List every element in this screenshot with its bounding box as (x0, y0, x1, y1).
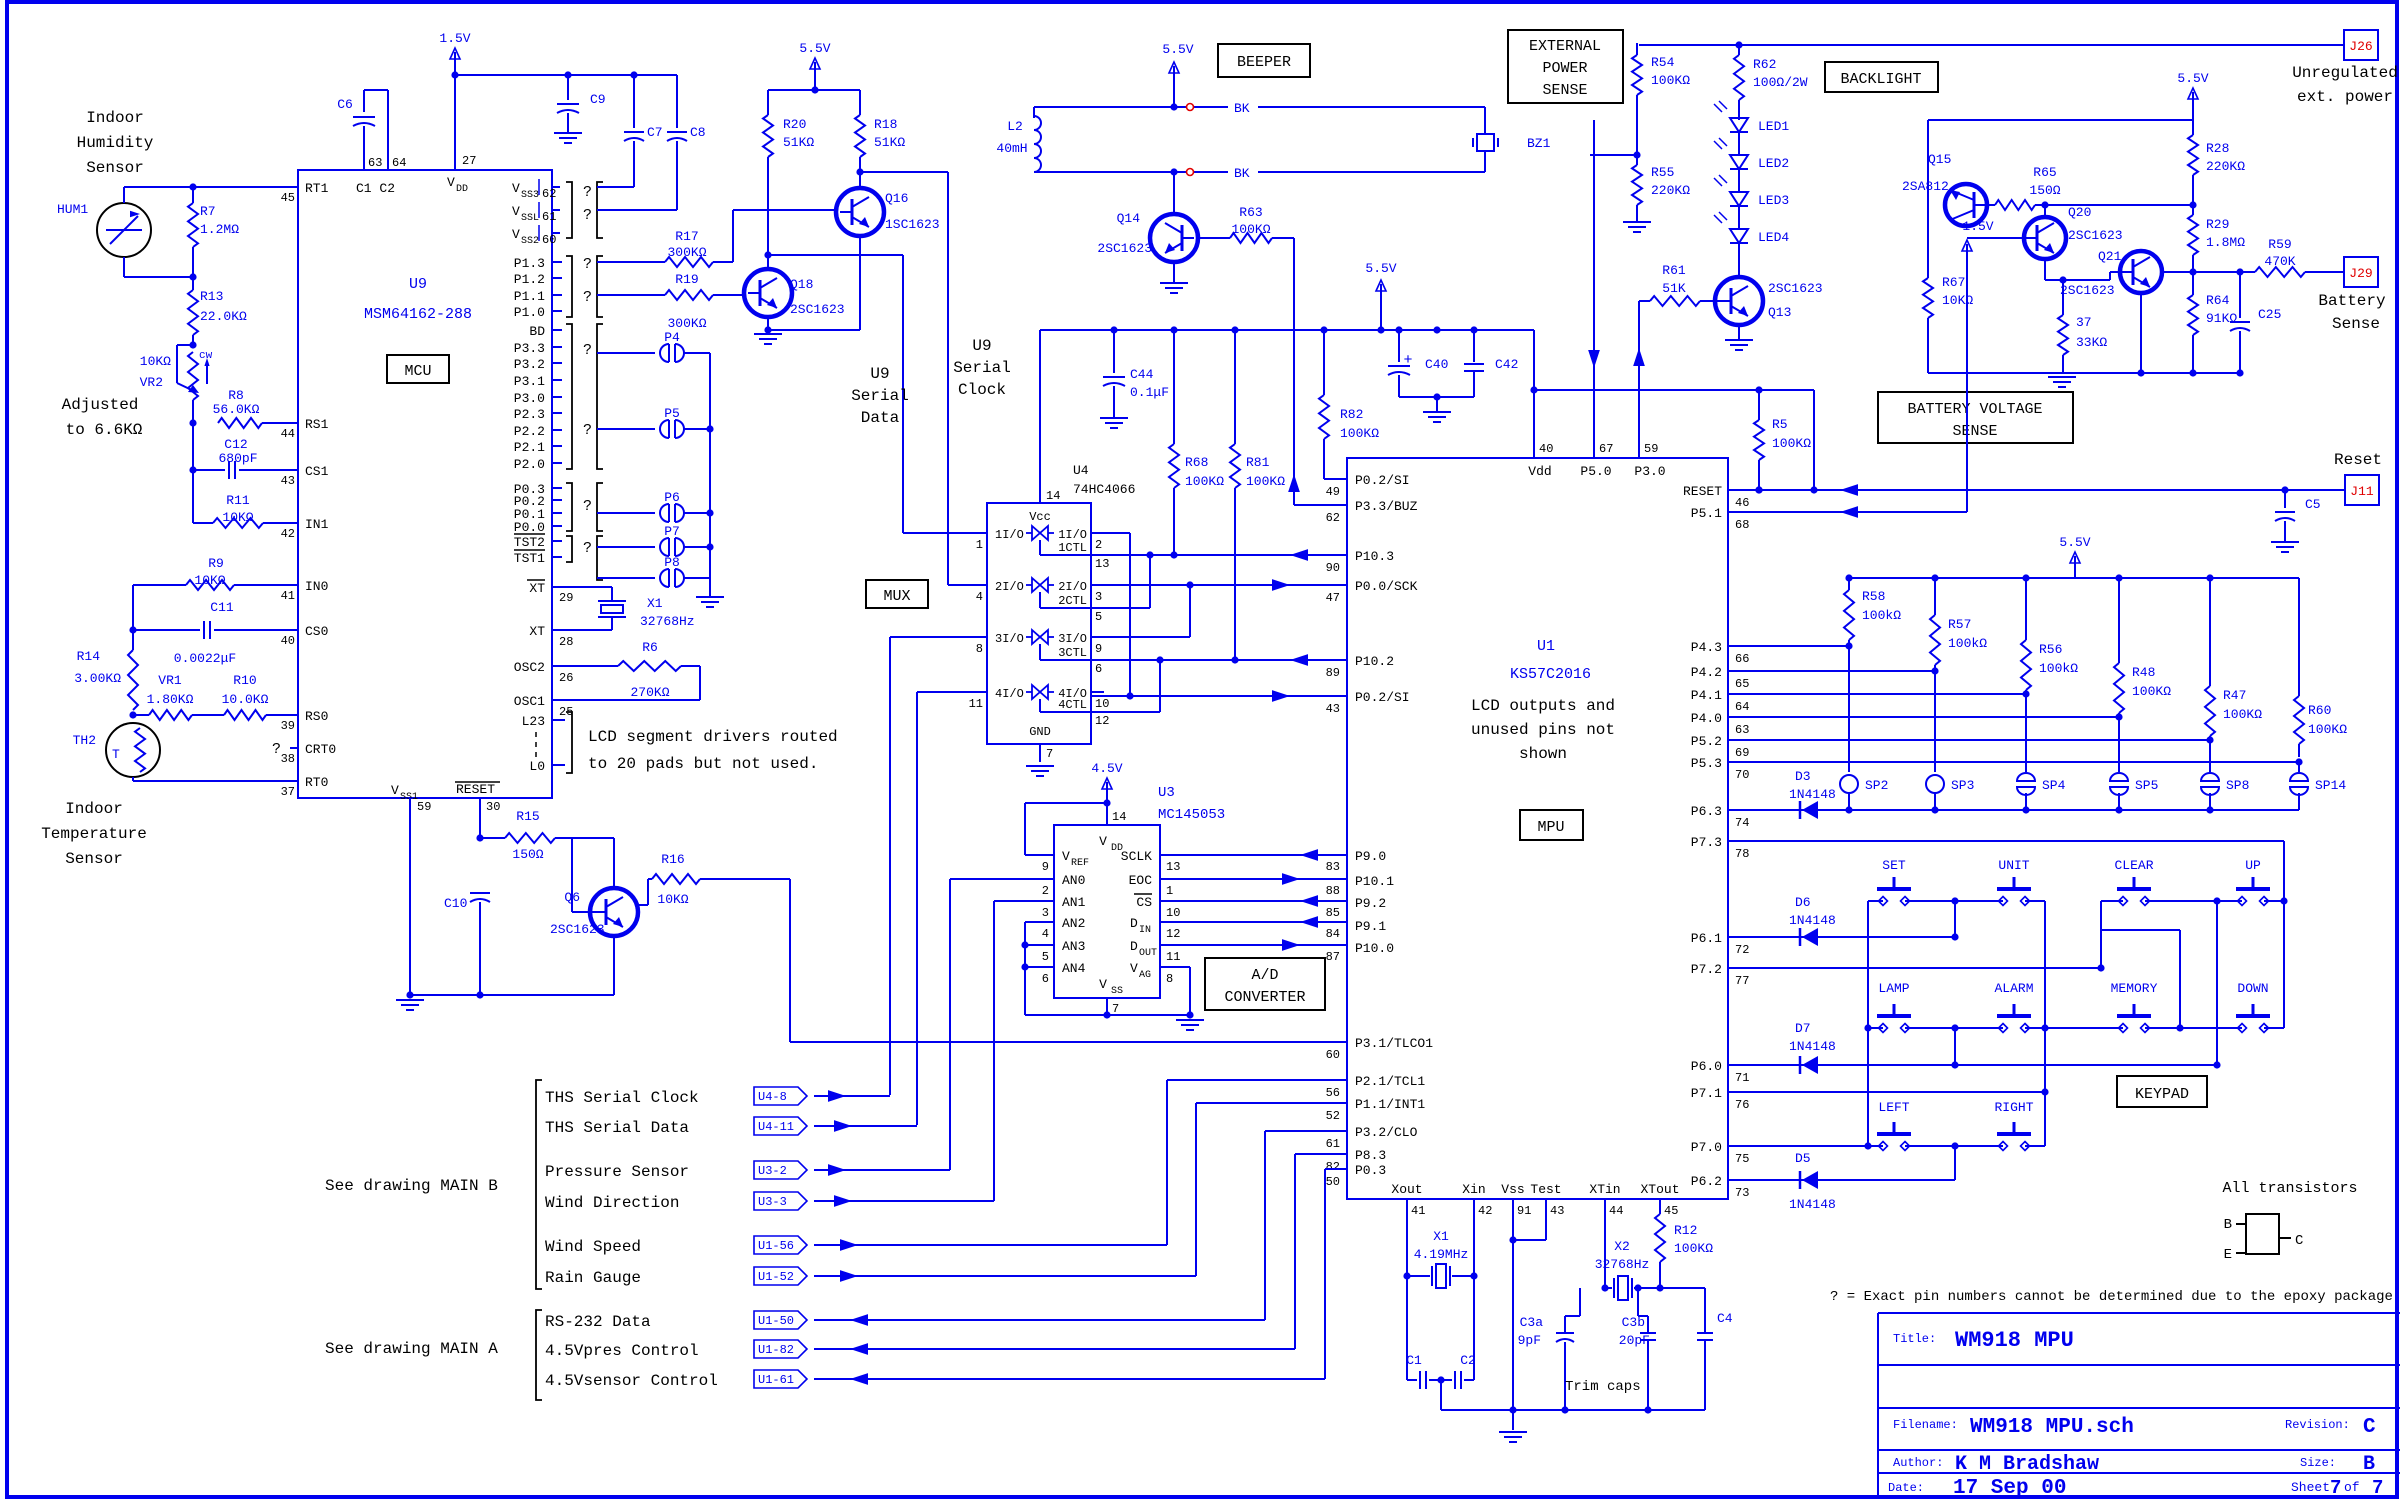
svg-text:TST2: TST2 (514, 535, 545, 550)
svg-text:100KΩ: 100KΩ (1674, 1241, 1713, 1256)
svg-text:MC145053: MC145053 (1158, 807, 1225, 823)
svg-text:Sensor: Sensor (65, 850, 123, 868)
svg-text:SP5: SP5 (2135, 778, 2158, 793)
svg-text:10KΩ: 10KΩ (140, 354, 171, 369)
svg-text:14: 14 (1112, 810, 1126, 824)
svg-text:R6: R6 (642, 640, 658, 655)
svg-text:Sheet: Sheet (2291, 1480, 2330, 1495)
svg-text:RESET: RESET (456, 782, 495, 797)
svg-text:1: 1 (1166, 884, 1173, 898)
svg-text:C1 C2: C1 C2 (356, 181, 395, 196)
svg-text:1CTL: 1CTL (1058, 541, 1087, 555)
svg-text:Data: Data (861, 409, 900, 427)
svg-text:XT: XT (529, 581, 545, 596)
svg-text:75: 75 (1735, 1152, 1749, 1166)
svg-text:63: 63 (1735, 723, 1749, 737)
svg-text:7: 7 (2330, 1477, 2341, 1499)
svg-text:XTin: XTin (1589, 1182, 1620, 1197)
svg-text:C3b: C3b (1622, 1315, 1645, 1330)
svg-text:45: 45 (281, 191, 295, 205)
svg-text:C4: C4 (1717, 1311, 1733, 1326)
svg-text:DD: DD (456, 184, 468, 195)
svg-text:4: 4 (976, 590, 983, 604)
svg-text:Trim caps: Trim caps (1565, 1379, 1641, 1395)
svg-text:9: 9 (1095, 642, 1102, 656)
svg-text:2SC1623: 2SC1623 (790, 302, 845, 317)
svg-text:20pF: 20pF (1619, 1333, 1650, 1348)
svg-text:CRT0: CRT0 (305, 742, 336, 757)
svg-text:62: 62 (1326, 511, 1340, 525)
svg-text:D5: D5 (1795, 1151, 1811, 1166)
svg-text:14: 14 (1046, 489, 1060, 503)
svg-text:5: 5 (1042, 950, 1049, 964)
svg-text:Q20: Q20 (2068, 205, 2091, 220)
svg-text:Rain Gauge: Rain Gauge (545, 1269, 641, 1287)
svg-text:40mH: 40mH (996, 141, 1027, 156)
svg-text:B: B (2224, 1217, 2232, 1233)
svg-text:P2.2: P2.2 (514, 424, 545, 439)
svg-text:88: 88 (1326, 884, 1340, 898)
svg-text:C9: C9 (590, 92, 606, 107)
svg-text:3: 3 (1095, 590, 1102, 604)
svg-text:?: ? (583, 207, 592, 224)
svg-text:Q13: Q13 (1768, 305, 1791, 320)
svg-text:R64: R64 (2206, 293, 2230, 308)
svg-text:ext. power: ext. power (2297, 88, 2393, 106)
svg-text:1N4148: 1N4148 (1789, 787, 1836, 802)
svg-text:of: of (2344, 1480, 2360, 1495)
svg-text:POWER: POWER (1542, 60, 1587, 77)
svg-text:CS0: CS0 (305, 624, 328, 639)
svg-text:U4: U4 (1073, 463, 1089, 478)
svg-text:8: 8 (976, 642, 983, 656)
svg-text:Reset: Reset (2334, 451, 2382, 469)
svg-text:C5: C5 (2305, 497, 2321, 512)
svg-text:U9: U9 (972, 337, 991, 355)
svg-text:AN3: AN3 (1062, 939, 1085, 954)
svg-text:U1-56: U1-56 (758, 1239, 794, 1253)
svg-text:1.8MΩ: 1.8MΩ (2206, 235, 2245, 250)
svg-text:Date:: Date: (1888, 1481, 1924, 1495)
svg-text:P4: P4 (664, 330, 680, 345)
svg-text:CONVERTER: CONVERTER (1224, 989, 1305, 1006)
svg-text:10KΩ: 10KΩ (1942, 293, 1973, 308)
svg-text:V: V (391, 783, 399, 798)
svg-text:100Ω/2W: 100Ω/2W (1753, 75, 1808, 90)
svg-text:40: 40 (281, 634, 295, 648)
svg-text:XT: XT (529, 624, 545, 639)
svg-text:L0: L0 (529, 759, 545, 774)
svg-text:C25: C25 (2258, 307, 2281, 322)
svg-text:1: 1 (976, 538, 983, 552)
svg-text:SP3: SP3 (1951, 778, 1974, 793)
svg-text:D6: D6 (1795, 895, 1811, 910)
svg-text:4: 4 (1042, 927, 1049, 941)
svg-text:P3.0: P3.0 (514, 391, 545, 406)
svg-text:4.5Vpres Control: 4.5Vpres Control (545, 1342, 699, 1360)
svg-text:SS3: SS3 (521, 190, 539, 201)
svg-text:33KΩ: 33KΩ (2076, 335, 2107, 350)
svg-text:R12: R12 (1674, 1223, 1697, 1238)
svg-text:R58: R58 (1862, 589, 1885, 604)
svg-text:83: 83 (1326, 860, 1340, 874)
svg-text:R17: R17 (675, 229, 698, 244)
svg-text:1.80KΩ: 1.80KΩ (147, 692, 194, 707)
svg-text:Vcc: Vcc (1029, 510, 1051, 524)
svg-text:2SC1623: 2SC1623 (2068, 228, 2123, 243)
svg-text:U9: U9 (409, 276, 427, 293)
svg-text:59: 59 (1644, 442, 1658, 456)
svg-text:TH2: TH2 (73, 733, 96, 748)
svg-text:4I/O: 4I/O (995, 687, 1024, 701)
svg-text:P4.3: P4.3 (1691, 640, 1722, 655)
svg-text:V: V (1130, 961, 1138, 976)
svg-text:P4.1: P4.1 (1691, 688, 1722, 703)
svg-text:100kΩ: 100kΩ (1862, 608, 1901, 623)
svg-text:Humidity: Humidity (77, 134, 154, 152)
svg-text:P1.1: P1.1 (514, 289, 545, 304)
svg-text:5.5V: 5.5V (2059, 535, 2090, 550)
svg-text:V: V (1099, 977, 1107, 992)
svg-text:100kΩ: 100kΩ (1948, 636, 1987, 651)
svg-text:10.0KΩ: 10.0KΩ (222, 692, 269, 707)
svg-text:41: 41 (1411, 1204, 1425, 1218)
svg-text:Serial: Serial (851, 387, 909, 405)
svg-text:13: 13 (1166, 860, 1180, 874)
svg-text:R13: R13 (200, 289, 223, 304)
svg-text:R28: R28 (2206, 141, 2229, 156)
svg-text:P3.2: P3.2 (514, 357, 545, 372)
svg-text:X2: X2 (1614, 1239, 1630, 1254)
svg-text:LED4: LED4 (1758, 230, 1789, 245)
svg-text:11: 11 (969, 697, 983, 711)
svg-text:SENSE: SENSE (1952, 423, 1997, 440)
svg-text:29: 29 (559, 591, 573, 605)
svg-text:Test: Test (1530, 1182, 1561, 1197)
svg-text:Vdd: Vdd (1528, 464, 1551, 479)
svg-text:?: ? (583, 540, 592, 557)
svg-text:P2.3: P2.3 (514, 407, 545, 422)
svg-text:R61: R61 (1662, 263, 1686, 278)
svg-text:43: 43 (1550, 1204, 1564, 1218)
svg-text:P1.1/INT1: P1.1/INT1 (1355, 1097, 1425, 1112)
svg-text:R48: R48 (2132, 665, 2155, 680)
svg-text:2: 2 (1042, 884, 1049, 898)
svg-text:74HC4066: 74HC4066 (1073, 482, 1135, 497)
svg-text:2SC1623: 2SC1623 (2060, 283, 2115, 298)
svg-text:100kΩ: 100kΩ (2039, 661, 2078, 676)
svg-text:66: 66 (1735, 652, 1749, 666)
svg-text:D3: D3 (1795, 769, 1811, 784)
svg-text:AN4: AN4 (1062, 961, 1086, 976)
svg-text:R67: R67 (1942, 275, 1965, 290)
svg-text:90: 90 (1326, 561, 1340, 575)
svg-text:P7.2: P7.2 (1691, 962, 1722, 977)
svg-text:42: 42 (281, 527, 295, 541)
svg-text:Temperature: Temperature (41, 825, 147, 843)
svg-text:GND: GND (1029, 725, 1051, 739)
svg-text:P0.2/SI: P0.2/SI (1355, 473, 1410, 488)
svg-text:P5: P5 (664, 406, 680, 421)
svg-text:32768Hz: 32768Hz (640, 614, 695, 629)
svg-text:TST1: TST1 (514, 551, 545, 566)
svg-text:SS2: SS2 (521, 236, 539, 247)
svg-text:BK: BK (1234, 101, 1250, 116)
svg-text:?: ? (583, 289, 592, 306)
svg-text:?: ? (583, 498, 592, 515)
svg-text:OSC1: OSC1 (514, 694, 545, 709)
svg-text:SET: SET (1882, 858, 1906, 873)
svg-text:UNIT: UNIT (1998, 858, 2029, 873)
svg-text:40: 40 (1539, 442, 1553, 456)
svg-text:5: 5 (1095, 610, 1102, 624)
svg-text:Q14: Q14 (1117, 211, 1141, 226)
svg-text:27: 27 (462, 154, 476, 168)
svg-text:Wind Speed: Wind Speed (545, 1238, 641, 1256)
svg-text:2SC1623: 2SC1623 (1768, 281, 1823, 296)
svg-text:IN1: IN1 (305, 517, 329, 532)
svg-text:DOWN: DOWN (2237, 981, 2268, 996)
svg-text:82: 82 (1326, 1160, 1340, 1174)
svg-text:RS-232 Data: RS-232 Data (545, 1313, 651, 1331)
svg-text:1N4148: 1N4148 (1789, 913, 1836, 928)
svg-text:2CTL: 2CTL (1058, 594, 1087, 608)
svg-text:SS: SS (1111, 986, 1123, 997)
svg-text:R60: R60 (2308, 703, 2331, 718)
svg-text:6: 6 (1042, 972, 1049, 986)
svg-text:P1.0: P1.0 (514, 305, 545, 320)
svg-text:U4-11: U4-11 (758, 1120, 794, 1134)
svg-text:BD: BD (529, 324, 545, 339)
svg-text:1N4148: 1N4148 (1789, 1197, 1836, 1212)
svg-text:D: D (1130, 916, 1138, 931)
svg-text:P1.2: P1.2 (514, 272, 545, 287)
svg-text:U3-2: U3-2 (758, 1164, 787, 1178)
svg-text:10KΩ: 10KΩ (222, 510, 253, 525)
svg-text:R10: R10 (233, 673, 256, 688)
svg-text:32768Hz: 32768Hz (1595, 1257, 1650, 1272)
svg-text:1.2MΩ: 1.2MΩ (200, 222, 239, 237)
svg-text:UP: UP (2245, 858, 2261, 873)
svg-text:B: B (2363, 1453, 2375, 1476)
svg-text:R81: R81 (1246, 455, 1270, 470)
svg-text:Unregulated: Unregulated (2292, 64, 2398, 82)
svg-text:IN: IN (1139, 925, 1151, 936)
svg-text:R11: R11 (226, 493, 250, 508)
svg-text:VR1: VR1 (158, 673, 182, 688)
svg-text:76: 76 (1735, 1098, 1749, 1112)
svg-text:R57: R57 (1948, 617, 1971, 632)
svg-text:R15: R15 (516, 809, 539, 824)
svg-text:2SC1623: 2SC1623 (550, 922, 605, 937)
svg-text:BACKLIGHT: BACKLIGHT (1840, 71, 1921, 88)
svg-text:Clock: Clock (958, 381, 1006, 399)
svg-text:Pressure Sensor: Pressure Sensor (545, 1163, 689, 1181)
svg-text:74: 74 (1735, 816, 1749, 830)
svg-text:44: 44 (1609, 1204, 1623, 1218)
svg-text:U1: U1 (1537, 638, 1555, 655)
svg-text:Indoor: Indoor (65, 800, 123, 818)
svg-text:LED1: LED1 (1758, 119, 1789, 134)
svg-text:7: 7 (1112, 1002, 1119, 1016)
svg-text:1.5V: 1.5V (1962, 219, 1993, 234)
svg-text:MUX: MUX (883, 588, 910, 605)
svg-text:P7.3: P7.3 (1691, 835, 1722, 850)
svg-text:LCD segment drivers routed: LCD segment drivers routed (588, 728, 838, 746)
svg-text:64: 64 (1735, 700, 1749, 714)
svg-text:RS1: RS1 (305, 417, 329, 432)
svg-text:87: 87 (1326, 950, 1340, 964)
svg-text:V: V (512, 227, 520, 242)
svg-text:See drawing MAIN B: See drawing MAIN B (325, 1177, 498, 1195)
svg-text:100KΩ: 100KΩ (1231, 222, 1270, 237)
svg-text:Adjusted: Adjusted (62, 396, 139, 414)
svg-text:CS1: CS1 (305, 464, 329, 479)
svg-text:THS Serial Clock: THS Serial Clock (545, 1089, 699, 1107)
svg-text:70: 70 (1735, 768, 1749, 782)
svg-text:R5: R5 (1772, 417, 1788, 432)
svg-text:100KΩ: 100KΩ (1185, 474, 1224, 489)
svg-text:P10.1: P10.1 (1355, 874, 1394, 889)
svg-text:R19: R19 (675, 272, 698, 287)
svg-text:HUM1: HUM1 (57, 202, 88, 217)
svg-text:XTout: XTout (1640, 1182, 1679, 1197)
svg-text:P0.2/SI: P0.2/SI (1355, 690, 1410, 705)
svg-text:P1.3: P1.3 (514, 256, 545, 271)
svg-text:K M Bradshaw: K M Bradshaw (1955, 1453, 2099, 1476)
svg-text:V: V (1099, 834, 1107, 849)
svg-text:LED2: LED2 (1758, 156, 1789, 171)
svg-text:MPU: MPU (1537, 819, 1564, 836)
svg-text:3.00KΩ: 3.00KΩ (74, 671, 121, 686)
svg-text:P3.1/TLCO1: P3.1/TLCO1 (1355, 1036, 1433, 1051)
svg-text:4.5Vsensor Control: 4.5Vsensor Control (545, 1372, 718, 1390)
svg-text:Title:: Title: (1893, 1332, 1936, 1346)
svg-text:U1-52: U1-52 (758, 1270, 794, 1284)
svg-text:C42: C42 (1495, 357, 1518, 372)
svg-text:?: ? (583, 342, 592, 359)
svg-text:cw: cw (199, 350, 213, 362)
svg-text:V: V (512, 204, 520, 219)
svg-text:? = Exact pin numbers cannot b: ? = Exact pin numbers cannot be determin… (1830, 1289, 2393, 1305)
svg-text:KS57C2016: KS57C2016 (1510, 666, 1591, 683)
svg-text:300KΩ: 300KΩ (667, 245, 706, 260)
svg-text:Wind Direction: Wind Direction (545, 1194, 679, 1212)
svg-text:R62: R62 (1753, 57, 1776, 72)
svg-text:P3.3/BUZ: P3.3/BUZ (1355, 499, 1418, 514)
svg-text:1N4148: 1N4148 (1789, 1039, 1836, 1054)
svg-text:77: 77 (1735, 974, 1749, 988)
svg-text:100KΩ: 100KΩ (1340, 426, 1379, 441)
svg-text:1I/O: 1I/O (1058, 528, 1087, 542)
svg-text:X1: X1 (647, 596, 663, 611)
svg-text:42: 42 (1478, 1204, 1492, 1218)
svg-text:R56: R56 (2039, 642, 2062, 657)
svg-text:P5.3: P5.3 (1691, 756, 1722, 771)
svg-text:91KΩ: 91KΩ (2206, 311, 2237, 326)
svg-text:P2.0: P2.0 (514, 457, 545, 472)
svg-text:61: 61 (1326, 1137, 1340, 1151)
svg-text:P7.0: P7.0 (1691, 1140, 1722, 1155)
svg-text:R8: R8 (228, 388, 244, 403)
svg-text:Q21: Q21 (2098, 249, 2122, 264)
svg-text:L23: L23 (522, 714, 545, 729)
svg-text:J26: J26 (2349, 39, 2372, 54)
svg-text:56.0KΩ: 56.0KΩ (213, 402, 260, 417)
svg-text:P9.2: P9.2 (1355, 896, 1386, 911)
svg-text:R7: R7 (200, 204, 216, 219)
svg-text:7: 7 (1046, 747, 1053, 761)
svg-text:43: 43 (1326, 702, 1340, 716)
svg-text:100KΩ: 100KΩ (2132, 684, 2171, 699)
svg-text:69: 69 (1735, 746, 1749, 760)
svg-text:Author:: Author: (1893, 1456, 1943, 1470)
svg-text:65: 65 (1735, 677, 1749, 691)
svg-text:4CTL: 4CTL (1058, 698, 1087, 712)
svg-text:100KΩ: 100KΩ (1772, 436, 1811, 451)
svg-text:11: 11 (1166, 950, 1180, 964)
svg-text:R18: R18 (874, 117, 897, 132)
svg-text:2I/O: 2I/O (1058, 580, 1087, 594)
svg-text:39: 39 (281, 719, 295, 733)
svg-text:78: 78 (1735, 847, 1749, 861)
svg-text:Indoor: Indoor (86, 109, 144, 127)
svg-text:V: V (447, 175, 455, 190)
svg-text:62: 62 (542, 187, 556, 201)
svg-text:51K: 51K (1662, 281, 1686, 296)
svg-text:MCU: MCU (404, 363, 431, 380)
svg-text:85: 85 (1326, 906, 1340, 920)
svg-text:C40: C40 (1425, 357, 1448, 372)
svg-text:10: 10 (1095, 697, 1109, 711)
svg-text:SENSE: SENSE (1542, 82, 1587, 99)
svg-text:150Ω: 150Ω (2029, 183, 2060, 198)
svg-text:P6.3: P6.3 (1691, 804, 1722, 819)
svg-text:?: ? (583, 422, 592, 439)
svg-text:72: 72 (1735, 943, 1749, 957)
svg-text:D7: D7 (1795, 1021, 1811, 1036)
svg-text:Xin: Xin (1462, 1182, 1485, 1197)
svg-text:220KΩ: 220KΩ (1651, 183, 1690, 198)
svg-text:AN2: AN2 (1062, 916, 1085, 931)
svg-text:SP2: SP2 (1865, 778, 1888, 793)
svg-text:12: 12 (1166, 927, 1180, 941)
svg-text:MEMORY: MEMORY (2111, 981, 2158, 996)
svg-text:AN0: AN0 (1062, 873, 1085, 888)
svg-text:Q18: Q18 (790, 277, 813, 292)
svg-text:64: 64 (392, 156, 406, 170)
svg-text:V: V (1062, 849, 1070, 864)
svg-text:470K: 470K (2264, 254, 2295, 269)
svg-text:WM918 MPU.sch: WM918 MPU.sch (1970, 1416, 2134, 1439)
svg-text:EXTERNAL: EXTERNAL (1529, 38, 1601, 55)
svg-text:59: 59 (417, 800, 431, 814)
svg-text:P10.3: P10.3 (1355, 549, 1394, 564)
svg-text:28: 28 (559, 635, 573, 649)
svg-text:150Ω: 150Ω (512, 847, 543, 862)
svg-text:C6: C6 (337, 97, 353, 112)
svg-text:BZ1: BZ1 (1527, 136, 1551, 151)
svg-text:3CTL: 3CTL (1058, 646, 1087, 660)
svg-text:RT1: RT1 (305, 181, 329, 196)
svg-text:60: 60 (1326, 1048, 1340, 1062)
svg-text:P0.0: P0.0 (514, 520, 545, 535)
svg-text:680pF: 680pF (218, 451, 257, 466)
svg-text:P8: P8 (664, 555, 680, 570)
svg-text:BK: BK (1234, 166, 1250, 181)
svg-text:R59: R59 (2268, 237, 2291, 252)
svg-text:3I/O: 3I/O (1058, 632, 1087, 646)
